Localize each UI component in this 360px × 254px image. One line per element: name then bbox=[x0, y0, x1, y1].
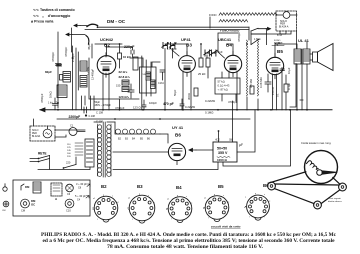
wire pots down bbox=[247, 97, 258, 110]
svg-text:4700pF: 4700pF bbox=[40, 93, 44, 103]
T1 winding b bbox=[151, 80, 156, 89]
wire top bus upper bbox=[98, 26, 250, 28]
svg-text:g: g bbox=[139, 194, 140, 196]
svg-text:355 V: 355 V bbox=[218, 151, 228, 155]
wire B3 pins bbox=[183, 71, 191, 110]
wire B6 left bbox=[113, 151, 168, 153]
wire x92 bbox=[91, 44, 93, 58]
trimmer arrow C8 bbox=[87, 184, 90, 187]
wire T3 top bbox=[94, 121, 115, 123]
svg-text:C 108: C 108 bbox=[96, 120, 103, 124]
coil winding L1b bbox=[80, 76, 87, 88]
svg-text:⌀ Presa varia: ⌀ Presa varia bbox=[31, 20, 54, 24]
wire T2 down bbox=[297, 64, 307, 110]
resistor 1000ohm bbox=[217, 156, 230, 158]
svg-text:RETE: RETE bbox=[38, 152, 47, 156]
wire left column x58 bbox=[57, 32, 59, 108]
wire heater right bbox=[160, 134, 168, 143]
svg-text:12-495pF: 12-495pF bbox=[91, 68, 95, 80]
spring inside bbox=[307, 161, 319, 170]
resistor R-if bbox=[133, 57, 138, 70]
heater chain bbox=[115, 122, 160, 134]
svg-text:10µF: 10µF bbox=[287, 67, 291, 74]
variable capacitor C-tune2 bbox=[204, 50, 211, 56]
svg-text:UY 41: UY 41 bbox=[172, 125, 184, 130]
resistor heater dropper bbox=[219, 13, 277, 16]
wire caps bottom bbox=[113, 162, 218, 170]
svg-text:0.22MΩ: 0.22MΩ bbox=[205, 99, 215, 103]
wire T1 top bbox=[130, 58, 160, 67]
wire B4 pins bbox=[229, 71, 237, 110]
coil winding L3b bbox=[122, 87, 129, 92]
svg-text:s: s bbox=[148, 195, 149, 197]
svg-text:B5: B5 bbox=[277, 49, 283, 54]
wire N1 top/bottom bbox=[222, 72, 236, 101]
pulley P1 bbox=[268, 182, 276, 190]
svg-text:1000 Ω: 1000 Ω bbox=[217, 158, 228, 162]
svg-text:CM: CM bbox=[2, 210, 6, 212]
variable capacitor C-tune1 bbox=[162, 43, 169, 49]
hub circle bbox=[317, 170, 323, 176]
wire tune2 bbox=[201, 44, 208, 78]
svg-text:82pF: 82pF bbox=[45, 70, 52, 74]
switch lever S1 bbox=[87, 24, 98, 26]
arrow fono bbox=[266, 27, 271, 30]
switch fono lever bbox=[251, 28, 266, 31]
socket pin specks bbox=[93, 193, 272, 221]
svg-text:UL 41: UL 41 bbox=[298, 38, 310, 43]
wire T1 verticals bbox=[142, 56, 151, 110]
resistor 10k bbox=[118, 53, 122, 59]
svg-text:diretto attacco: diretto attacco bbox=[328, 200, 343, 203]
wires motor bbox=[34, 119, 86, 137]
wire top b3 bbox=[165, 44, 187, 56]
switch lever S2 bbox=[86, 36, 89, 45]
capacitor C-osc1 bbox=[56, 64, 62, 66]
coil box L1 bbox=[78, 44, 139, 99]
wire x119.5 bbox=[119, 44, 121, 110]
svg-text:BI.424 A: BI.424 A bbox=[279, 25, 289, 28]
svg-text:s: s bbox=[186, 196, 187, 198]
socket C6 bbox=[66, 184, 74, 192]
second bus bbox=[57, 118, 250, 120]
svg-text:DM: DM bbox=[25, 185, 30, 189]
capacitor C-k1 bbox=[128, 84, 134, 98]
svg-text:4700pF: 4700pF bbox=[51, 52, 55, 62]
svg-text:BI.424A: BI.424A bbox=[32, 135, 41, 138]
svg-text:FONO: FONO bbox=[209, 13, 217, 17]
svg-text:C1: C1 bbox=[70, 124, 74, 128]
dial drum bbox=[305, 151, 338, 184]
wire x302 bbox=[300, 64, 303, 110]
svg-text:g: g bbox=[255, 193, 256, 195]
resistor R-b3b bbox=[206, 58, 210, 67]
oscillator coil L2b bbox=[57, 85, 67, 98]
wire bottom mains bbox=[38, 156, 90, 170]
coil winding L3a bbox=[122, 80, 129, 85]
switch mains bbox=[39, 156, 50, 162]
capacitor C1 bbox=[69, 128, 77, 136]
resistor R-x4 bbox=[284, 84, 288, 92]
wire left column x71.5 bbox=[71, 28, 73, 52]
svg-text:0.1: 0.1 bbox=[276, 93, 280, 97]
svg-text:zoccoli visti da sotto: zoccoli visti da sotto bbox=[211, 225, 241, 229]
svg-text:k: k bbox=[268, 210, 269, 212]
socket diagram B2 bbox=[93, 196, 118, 222]
wire column x85 bbox=[84, 96, 86, 105]
resistor R-x1 bbox=[194, 88, 198, 96]
svg-text:300Ω: 300Ω bbox=[187, 93, 191, 100]
panel component A bbox=[51, 183, 62, 196]
wire to dropper bbox=[210, 15, 277, 29]
motor box dashed solo per bbox=[30, 126, 55, 141]
svg-text:k: k bbox=[190, 212, 191, 214]
svg-text:B2: B2 bbox=[101, 184, 107, 189]
wire column x76 bbox=[75, 48, 77, 110]
junction dots left bbox=[57, 57, 73, 104]
wire column x72.5 bbox=[72, 46, 74, 110]
electrolytic caps box bbox=[213, 142, 237, 162]
junction dot c108 bbox=[85, 114, 87, 116]
svg-text:10 kΩ: 10 kΩ bbox=[123, 55, 131, 59]
wire B6 to caps bbox=[196, 149, 213, 151]
wire top b4 bbox=[227, 44, 233, 55]
svg-text:123 Ω: 123 Ω bbox=[133, 106, 141, 110]
arrow into B6 bbox=[189, 148, 196, 151]
resistor R-osc bbox=[60, 75, 63, 81]
svg-text:1 MΩ: 1 MΩ bbox=[254, 37, 260, 41]
socket diagram B3 bbox=[128, 195, 155, 223]
wire column x90.5 bbox=[90, 96, 92, 110]
wire w-x4 bbox=[285, 75, 287, 110]
wire b4 grid fono bbox=[218, 33, 238, 58]
svg-text:1 kΩ 17Ω: 1 kΩ 17Ω bbox=[48, 102, 59, 105]
svg-text:45pF: 45pF bbox=[87, 43, 91, 50]
svg-text:B6: B6 bbox=[175, 133, 181, 138]
svg-text:2200pF: 2200pF bbox=[69, 115, 81, 119]
oscillator coil L2a bbox=[63, 72, 71, 83]
wire phono down bbox=[251, 31, 286, 34]
svg-text:s: s bbox=[112, 196, 113, 198]
resistor R-b3a bbox=[199, 58, 203, 67]
power transformer T3 core bbox=[103, 122, 105, 177]
IF can T1 bbox=[140, 67, 157, 93]
antenna arrow A bbox=[74, 24, 80, 27]
svg-text:∿∿ „ d’ancoraggio: ∿∿ „ d’ancoraggio bbox=[33, 14, 71, 18]
tube B3 bbox=[179, 56, 196, 73]
svg-text:B5: B5 bbox=[218, 184, 224, 189]
svg-text:C10: C10 bbox=[66, 209, 71, 213]
output transformer T2 bbox=[294, 49, 301, 64]
svg-text:0.1MΩ: 0.1MΩ bbox=[205, 111, 213, 115]
svg-text:g: g bbox=[103, 195, 104, 197]
svg-text:I cavi segnati: I cavi segnati bbox=[328, 197, 341, 200]
wire tune1 down bbox=[165, 49, 173, 111]
svg-text:150: 150 bbox=[116, 84, 121, 88]
svg-text:50pF: 50pF bbox=[173, 89, 177, 96]
T1 winding a bbox=[146, 72, 151, 80]
svg-text:g: g bbox=[177, 195, 178, 197]
socket C10 bbox=[65, 199, 74, 208]
voltage selector box bbox=[85, 139, 94, 167]
coil winding L1a bbox=[80, 61, 87, 71]
ext antenna symbol bbox=[3, 187, 7, 191]
wire speaker bbox=[310, 54, 313, 60]
svg-text:100pF: 100pF bbox=[149, 101, 157, 105]
T3 primary winding bbox=[97, 125, 101, 177]
potentiometer sym bbox=[272, 43, 284, 46]
svg-text:5 ÷ 30 pF: 5 ÷ 30 pF bbox=[75, 194, 86, 198]
trimmer arrow C4 bbox=[86, 196, 89, 199]
main ground bus bbox=[40, 109, 332, 111]
svg-text:0.5 MΩ: 0.5 MΩ bbox=[249, 79, 253, 88]
svg-text:220: 220 bbox=[66, 161, 71, 165]
wire fono net bbox=[251, 29, 267, 45]
resistor R-x2 bbox=[250, 86, 254, 94]
svg-text:0.22MΩ: 0.22MΩ bbox=[185, 105, 195, 109]
pulley P3 bbox=[314, 201, 322, 209]
svg-text:∿ 87 kΩ: ∿ 87 kΩ bbox=[218, 88, 228, 92]
svg-text:SOLO: SOLO bbox=[32, 130, 39, 132]
svg-text:10kΩ: 10kΩ bbox=[49, 91, 53, 98]
motor circle bbox=[43, 129, 52, 138]
capacitor C-osc2 bbox=[53, 98, 59, 110]
capacitor bus c1 bbox=[142, 100, 146, 110]
svg-text:CM: CM bbox=[21, 209, 25, 213]
pointer bbox=[322, 171, 337, 175]
svg-text:2-20pF: 2-20pF bbox=[71, 53, 75, 62]
socket CM bbox=[21, 199, 30, 208]
terminal taps bbox=[75, 143, 83, 155]
wire box taps bbox=[280, 31, 291, 34]
svg-text:µF: µF bbox=[239, 143, 243, 147]
svg-text:k: k bbox=[227, 211, 228, 213]
svg-text:UCH42: UCH42 bbox=[100, 37, 114, 42]
potentiometer 0.5M bbox=[246, 40, 247, 96]
svg-text:g: g bbox=[214, 194, 215, 196]
svg-text:C.108: C.108 bbox=[89, 115, 96, 118]
svg-text:UF41: UF41 bbox=[181, 37, 192, 42]
cord runs bbox=[268, 172, 340, 204]
svg-text:B4: B4 bbox=[176, 185, 182, 190]
svg-text:25 kΩ: 25 kΩ bbox=[198, 72, 205, 76]
svg-text:78 mA. Consumo totale 48 watt.: 78 mA. Consumo totale 48 watt. Tensione … bbox=[107, 244, 264, 250]
resistor dropper tap bbox=[219, 20, 248, 22]
network box N1 bbox=[215, 78, 240, 94]
svg-text:0.1Ω 4-43: 0.1Ω 4-43 bbox=[218, 84, 230, 88]
ext ground symbol bbox=[3, 201, 9, 207]
socket diagram B5 bbox=[204, 196, 229, 222]
svg-text:3 ÷ 30 pF: 3 ÷ 30 pF bbox=[76, 182, 87, 186]
phono pickup circle bbox=[283, 12, 290, 19]
svg-text:Corda tesata in max. lung.: Corda tesata in max. lung. bbox=[301, 141, 332, 145]
svg-text:∿∿ Tastiera di comando: ∿∿ Tastiera di comando bbox=[33, 8, 76, 12]
svg-text:22 Ω∿: 22 Ω∿ bbox=[119, 70, 128, 74]
capacitor C-x3 bbox=[265, 74, 271, 92]
svg-text:0.1µF: 0.1µF bbox=[287, 83, 291, 90]
pulley P2 bbox=[339, 183, 347, 191]
tube B2 bbox=[97, 56, 116, 75]
bus arrow bbox=[40, 108, 45, 112]
svg-text:4700pF: 4700pF bbox=[64, 47, 68, 57]
resistor 0.68M strip bbox=[257, 40, 258, 96]
svg-text:C 108: C 108 bbox=[96, 111, 103, 115]
svg-text:C134: C134 bbox=[158, 82, 164, 85]
svg-text:22.8 Ω∿: 22.8 Ω∿ bbox=[119, 75, 131, 79]
socket diagram B6 bbox=[245, 195, 270, 220]
svg-text:k: k bbox=[117, 211, 118, 213]
svg-text:0.68 MΩ: 0.68 MΩ bbox=[259, 77, 263, 88]
svg-text:B4: B4 bbox=[226, 43, 232, 48]
tube B5 bbox=[266, 57, 283, 74]
wire caps right bbox=[223, 110, 291, 166]
capacitor C-k2 bbox=[160, 70, 165, 80]
svg-text:OC: OC bbox=[31, 203, 35, 207]
svg-text:57 kΩ: 57 kΩ bbox=[218, 80, 225, 84]
wire top b5 bbox=[275, 44, 284, 57]
antenna arrow B bbox=[66, 33, 72, 36]
panel coil bbox=[33, 182, 41, 193]
svg-text:50+50: 50+50 bbox=[217, 147, 227, 151]
wire column x81.5 bbox=[81, 96, 83, 110]
T3 secondary winding bbox=[107, 125, 111, 177]
svg-text:k: k bbox=[154, 212, 155, 214]
rear panel bbox=[13, 180, 90, 216]
wire drop x110 bbox=[103, 73, 109, 110]
svg-text:150 Ω: 150 Ω bbox=[271, 87, 275, 95]
wire column x94 bbox=[93, 96, 95, 110]
svg-text:s: s bbox=[264, 194, 265, 196]
wire caps up bbox=[219, 101, 233, 142]
wire B5 pins bbox=[273, 64, 297, 110]
tube B4 bbox=[224, 55, 241, 72]
speaker LS bbox=[313, 52, 318, 62]
tube B6 bbox=[168, 143, 185, 160]
svg-text:B3: B3 bbox=[137, 184, 143, 189]
switch lower bbox=[64, 165, 77, 169]
svg-text:470 pF: 470 pF bbox=[163, 102, 174, 106]
svg-text:s: s bbox=[223, 195, 224, 197]
wire phono to T2 bbox=[296, 31, 298, 49]
wire drop x249 bbox=[248, 27, 250, 40]
transformer T3 outline bbox=[98, 124, 112, 176]
svg-text:PER: PER bbox=[32, 133, 37, 135]
wire top bus lower bbox=[85, 29, 249, 31]
svg-text:120 Ω∿: 120 Ω∿ bbox=[119, 95, 130, 99]
svg-text:DM - OC: DM - OC bbox=[107, 19, 126, 24]
phono box dashed bbox=[276, 11, 297, 31]
svg-text:UBC41: UBC41 bbox=[218, 37, 232, 42]
svg-text:B 43: B 43 bbox=[277, 34, 283, 37]
capacitor bus c2 bbox=[180, 99, 184, 110]
svg-text:B6: B6 bbox=[263, 183, 269, 188]
wire top b2 bbox=[106, 44, 108, 56]
svg-text:FONO: FONO bbox=[274, 40, 281, 42]
wire T2 top bbox=[284, 42, 307, 49]
wire grid b3 bbox=[172, 50, 179, 56]
socket diagram B4 bbox=[167, 197, 192, 223]
panel ant DM bbox=[21, 184, 24, 190]
